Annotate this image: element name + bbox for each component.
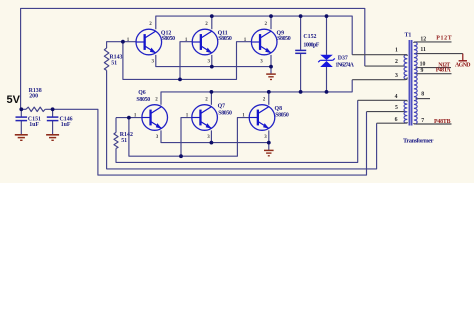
svg-text:8: 8	[421, 91, 424, 97]
svg-text:P48TA: P48TA	[436, 68, 452, 74]
svg-text:1uF: 1uF	[61, 122, 71, 128]
svg-text:C152: C152	[303, 34, 316, 40]
svg-text:Q8: Q8	[275, 106, 283, 112]
svg-text:Q7: Q7	[218, 103, 226, 109]
svg-text:7: 7	[421, 118, 424, 124]
svg-text:3: 3	[395, 73, 398, 79]
svg-text:1uF: 1uF	[29, 122, 39, 128]
svg-text:P12T: P12T	[436, 35, 452, 41]
svg-text:S8050: S8050	[136, 97, 150, 103]
svg-text:D37: D37	[338, 56, 348, 62]
svg-text:4: 4	[395, 94, 398, 100]
svg-text:5V: 5V	[7, 94, 21, 106]
svg-text:S8050: S8050	[275, 113, 289, 119]
svg-text:10: 10	[420, 62, 426, 68]
svg-text:200: 200	[29, 93, 38, 99]
svg-text:51: 51	[111, 60, 117, 66]
svg-text:S8050: S8050	[218, 36, 232, 42]
svg-text:P48TB: P48TB	[434, 119, 451, 125]
svg-text:11: 11	[420, 47, 426, 53]
svg-text:5: 5	[395, 105, 398, 111]
svg-text:2: 2	[395, 59, 398, 65]
svg-text:6: 6	[395, 117, 398, 123]
svg-text:1: 1	[395, 48, 398, 54]
svg-text:S8050: S8050	[277, 36, 291, 42]
svg-text:9: 9	[421, 68, 424, 74]
svg-text:S8050: S8050	[162, 36, 176, 42]
svg-text:S8050: S8050	[218, 111, 232, 117]
svg-text:12: 12	[420, 36, 426, 42]
svg-text:Q6: Q6	[138, 90, 146, 96]
svg-text:51: 51	[121, 138, 127, 144]
svg-text:AGND: AGND	[455, 63, 471, 69]
svg-text:1000pF: 1000pF	[303, 43, 319, 49]
svg-text:T1: T1	[405, 33, 412, 39]
svg-text:Transformer: Transformer	[403, 137, 434, 144]
svg-text:1N6274A: 1N6274A	[335, 63, 354, 69]
